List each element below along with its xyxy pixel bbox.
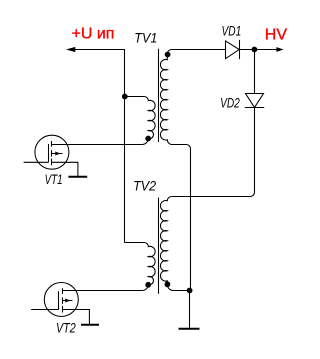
node junction on +U rail: [122, 94, 128, 100]
wire VT1 drain to TV1 primary: [52, 144, 143, 146]
svg-text:VT2: VT2: [56, 321, 76, 336]
node HV terminal arrow: [276, 47, 283, 52]
node TV2 secondary phase dot: [165, 281, 171, 287]
transformer TV1 primary winding: [125, 97, 156, 145]
svg-text:TV2: TV2: [133, 178, 156, 193]
diode VD1: [226, 41, 240, 59]
ground: [179, 328, 200, 330]
wire ground stem: [189, 291, 191, 329]
transformer TV2 primary winding: [125, 243, 156, 291]
node HV junction: [252, 47, 258, 53]
transformer TV1 core: [158, 49, 160, 142]
node TV1 secondary phase dot: [165, 52, 171, 58]
transformer TV1 secondary winding: [160, 50, 225, 291]
wire VT2 drain to TV2 primary: [63, 290, 143, 292]
wire +U supply rail: [75, 50, 125, 243]
svg-text:HV: HV: [265, 27, 288, 44]
svg-text:VT1: VT1: [45, 172, 63, 187]
wire VD1 cathode to HV: [240, 49, 278, 51]
transformer TV2 core: [158, 198, 160, 294]
node TV2 primary phase dot: [145, 282, 151, 288]
wire VD2 cathode to TV2 secondary: [172, 108, 255, 197]
transistor VT2: [31, 283, 89, 325]
ground VT1 source: [68, 176, 87, 178]
svg-text:+U ип: +U ип: [72, 25, 115, 42]
node ground junction: [187, 288, 193, 294]
wire HV node to VD2 anode: [254, 50, 256, 94]
svg-text:TV1: TV1: [134, 31, 157, 46]
svg-text:VD2: VD2: [220, 95, 240, 110]
diode VD2: [246, 94, 264, 108]
transistor VT1: [24, 135, 78, 177]
node +U terminal arrow: [66, 47, 75, 52]
ground VT2 source: [81, 324, 99, 326]
node TV1 primary phase dot: [145, 136, 151, 142]
svg-text:VD1: VD1: [222, 24, 242, 39]
transformer TV2 secondary winding: [160, 197, 189, 291]
